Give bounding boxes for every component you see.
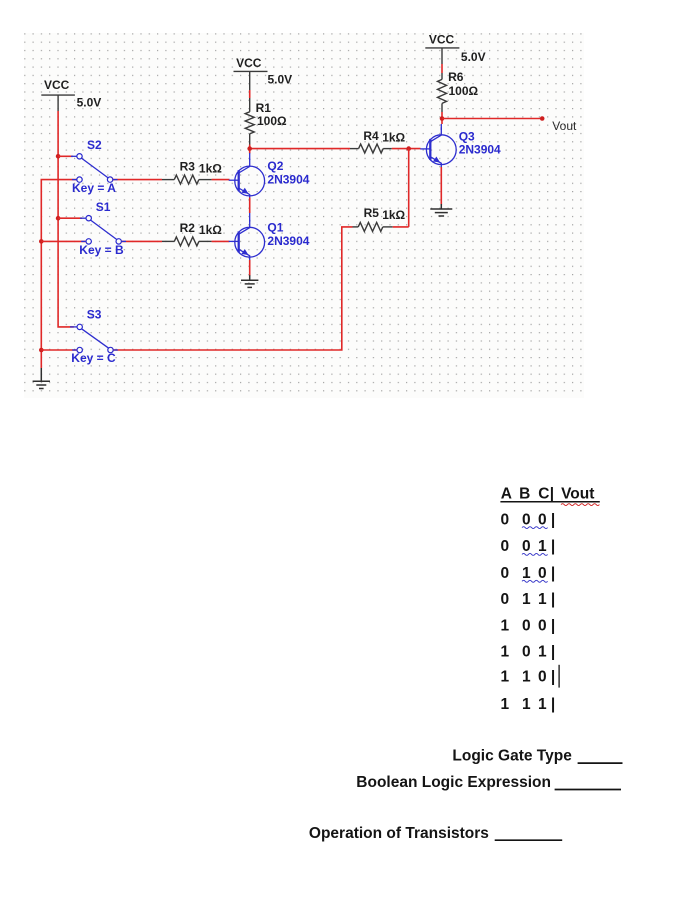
svg-text:Q1: Q1 [267,220,283,234]
svg-text:0: 0 [522,643,531,660]
wire S1 to R2 [121,240,162,242]
svg-text:1kΩ: 1kΩ [199,161,222,175]
wire VCC left rail down to S3 [58,111,74,327]
switch S2 [72,138,116,195]
wire S2 to R3 [113,179,162,181]
svg-text:0: 0 [538,669,547,686]
svg-text:|: | [551,512,555,529]
wire to Vout [442,118,542,120]
node Q3 collector / Vout [440,116,445,121]
wire VCC to R6 [441,64,443,73]
wire VCC to R1 [249,90,251,98]
wire node down to R5 [408,149,410,227]
power VCC symbol (center) [234,56,293,90]
wire S3 lower-left to rail [41,349,77,351]
svg-text:1kΩ: 1kΩ [382,131,405,145]
svg-text:|: | [551,565,555,582]
svg-text:1: 1 [501,643,510,660]
svg-text:Q2: Q2 [267,159,283,173]
pin stub S3 top [70,326,77,328]
resistor R4 [350,129,406,153]
svg-text:2N3904: 2N3904 [267,173,309,187]
truth table row 4 [501,591,556,608]
transistor Q1 [229,220,310,264]
svg-text:100Ω: 100Ω [449,84,479,98]
transistor Q3 [420,127,501,171]
svg-text:5.0V: 5.0V [268,72,293,86]
truth table row 5 [501,618,556,635]
svg-text:5.0V: 5.0V [77,96,102,110]
svg-text:1: 1 [522,696,531,713]
node at S1 row on left rail [39,239,44,244]
truth table row 6 [501,643,556,660]
resistor R5 [353,206,406,231]
wire Key=C line to R5 [113,227,352,350]
question line: Boolean Logic Expression [356,774,621,791]
node Vout endpoint [540,116,545,121]
svg-text:1: 1 [538,643,547,660]
svg-text:1: 1 [538,696,547,713]
wire Q2 emitter to Q1 collector [249,198,251,214]
svg-text:Key = B: Key = B [79,243,124,257]
svg-text:Logic Gate Type: Logic Gate Type [452,748,572,765]
svg-text:|: | [551,696,555,713]
svg-text:0: 0 [501,512,510,529]
svg-text:100Ω: 100Ω [257,114,287,128]
resistor R2 [162,221,222,246]
svg-text:1: 1 [522,565,531,582]
ground (bottom left) [33,368,50,389]
svg-text:1: 1 [538,591,547,608]
svg-text:0: 0 [522,618,531,635]
svg-text:Vout: Vout [561,486,594,503]
svg-text:Key = C: Key = C [71,351,116,365]
svg-text:0: 0 [538,512,547,529]
svg-text:R6: R6 [448,70,464,84]
svg-text:2N3904: 2N3904 [459,143,501,157]
pin stub S2 lower-left [72,179,77,181]
svg-text:Operation of Transistors: Operation of Transistors [309,825,489,842]
node Q2 collector [247,146,252,151]
svg-text:|: | [551,538,555,555]
wire Q1 emitter to ground [249,260,251,276]
svg-text:0: 0 [501,591,510,608]
pin stub S2 top [71,155,77,157]
wire Q3 pin-collector [440,124,442,130]
pin stub S1 lower-left [81,240,86,242]
svg-text:VCC: VCC [429,32,455,46]
truth table row 3 [501,565,556,582]
pin stub S2 lower-right [113,179,118,181]
wire R4 to Q3 base node [392,148,421,150]
truth table row 2 [501,538,556,555]
svg-text:0: 0 [501,565,510,582]
svg-text:S2: S2 [87,138,102,152]
svg-text:Key = A: Key = A [72,181,116,195]
wire R3 to Q2 base [212,179,230,181]
truth table row 8 [501,696,556,713]
truth table header A B C | Vout [500,486,599,506]
svg-text:0: 0 [538,618,547,635]
svg-text:1: 1 [501,618,510,635]
svg-text:1: 1 [501,696,510,713]
svg-text:|: | [551,618,555,635]
wire S1 common from rail [58,217,82,219]
transistor Q2 [229,159,310,203]
svg-text:Vout: Vout [552,119,577,133]
svg-text:R2: R2 [180,221,196,235]
svg-text:1: 1 [501,669,510,686]
truth table row 7 with text cursor [501,665,560,688]
wire S2 lower-left to left rail [41,180,77,368]
resistor R3 [162,160,222,185]
node at S1 tap [56,216,61,221]
svg-text:R4: R4 [363,129,379,143]
switch S3 [71,308,116,365]
resistor R1 [245,98,287,145]
svg-text:0: 0 [538,565,547,582]
wire S1 lower-left to left rail [41,240,86,242]
question line: Logic Gate Type [452,748,622,765]
svg-text:0: 0 [522,512,531,529]
wire R1 to collector node [249,145,251,154]
pin stub S1 top [80,217,86,219]
ground (under Q3) [430,204,452,216]
svg-text:B: B [519,486,530,503]
svg-text:1kΩ: 1kΩ [382,208,405,222]
svg-text:0: 0 [501,538,510,555]
truth table row 1 [501,512,556,529]
svg-text:Q3: Q3 [459,130,475,144]
svg-text:|: | [551,591,555,608]
question line: Operation of Transistors [309,825,562,842]
wire R5 to vertical node wire [393,226,409,228]
power VCC symbol (right) [425,32,485,64]
node at S3 row on left rail [39,348,44,353]
wire Q2 pin-collector [249,153,251,160]
pin stub Q1 collector [249,213,251,222]
svg-text:VCC: VCC [44,78,70,92]
svg-text:S1: S1 [96,200,111,214]
svg-text:VCC: VCC [236,56,262,70]
node R4/R5/Q3 base [406,146,411,151]
power VCC symbol (left) [41,78,101,111]
svg-text:A: A [501,486,512,503]
svg-text:S3: S3 [87,308,102,322]
svg-text:|: | [550,486,554,503]
svg-text:1kΩ: 1kΩ [199,223,222,237]
svg-text:1: 1 [538,538,547,555]
svg-text:R5: R5 [364,206,380,220]
svg-text:1: 1 [522,591,531,608]
wire R2 to Q1 base [212,240,230,242]
svg-text:1: 1 [522,669,531,686]
svg-text:Boolean Logic Expression: Boolean Logic Expression [356,774,551,791]
svg-text:|: | [551,643,555,660]
svg-text:5.0V: 5.0V [461,50,486,64]
svg-text:R3: R3 [180,160,196,174]
pin stub S3 lower-left [72,349,77,351]
svg-text:0: 0 [522,538,531,555]
wire to S2 common [58,155,73,157]
svg-text:C: C [538,486,549,503]
ground (under Q1) [241,275,258,287]
svg-text:|: | [551,669,555,686]
wire collector bus to R4 [250,148,350,150]
svg-text:2N3904: 2N3904 [267,234,309,248]
pin stub S1 lower-right [121,240,126,242]
wire R6 to Vout node [441,112,443,124]
switch S1 [79,200,124,257]
wire Q3 emitter to ground [440,167,442,205]
svg-text:R1: R1 [256,101,272,115]
node at S2 tap [56,154,61,159]
pin stub S3 lower-right [113,349,118,351]
resistor R6 [438,70,479,112]
